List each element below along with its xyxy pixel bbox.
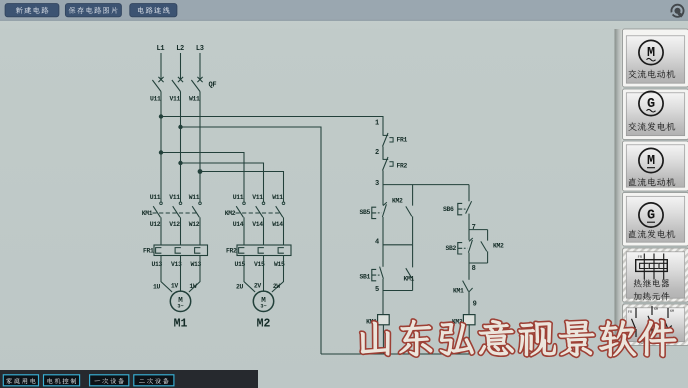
wire node1-2 bbox=[382, 147, 384, 160]
wire KM2 out pole 1 bbox=[243, 217, 245, 245]
wire phase U bus bbox=[160, 92, 162, 202]
wire right branch drop bbox=[468, 185, 470, 202]
svg-text:L3: L3 bbox=[196, 45, 204, 53]
wire FR1 out pole 2 bbox=[180, 256, 182, 291]
thermal relay FR1 heater box bbox=[154, 245, 208, 256]
wire bottom return bus bbox=[321, 353, 469, 355]
contactor aux KM1 interlock (NC) bbox=[463, 281, 469, 292]
svg-text:V11: V11 bbox=[170, 96, 181, 103]
svg-text:U11: U11 bbox=[233, 194, 244, 201]
palette tile: DC generator bbox=[623, 193, 688, 247]
svg-text:L1: L1 bbox=[156, 45, 164, 53]
svg-text:7: 7 bbox=[472, 224, 476, 232]
wire node5 to parallel bbox=[383, 290, 413, 292]
wire SB5 to node4 bbox=[382, 217, 384, 267]
svg-text:FR: FR bbox=[628, 311, 632, 315]
palette tile: thermal relay / heater bbox=[623, 248, 688, 302]
svg-text:3~: 3~ bbox=[177, 304, 183, 310]
svg-text:U11: U11 bbox=[150, 96, 161, 103]
wire KM1 out pole 1 bbox=[160, 217, 162, 245]
sidebar deck left edge bbox=[615, 29, 624, 346]
thermal relay FR2 heater box bbox=[237, 245, 291, 256]
junction U tap bbox=[159, 150, 163, 154]
contactor aux KM1 (parallel with SB1) bbox=[406, 245, 413, 291]
svg-text:3~: 3~ bbox=[260, 304, 266, 310]
thermal contact FR1 (NC) bbox=[383, 134, 389, 136]
wire KM2 out pole 3 bbox=[283, 217, 285, 245]
wire control return drop bbox=[181, 127, 322, 354]
svg-text:M: M bbox=[647, 154, 655, 169]
thermal relay FR1 element 1 bbox=[156, 248, 162, 254]
breaker QF pole 3 bbox=[197, 77, 202, 82]
svg-text:KM1: KM1 bbox=[453, 287, 464, 294]
wire node4 to parallel bbox=[383, 244, 413, 246]
coil KM1 bbox=[378, 315, 390, 325]
pushbutton SB6 (NO) bbox=[466, 201, 472, 213]
wire FR2 out pole 2 bbox=[263, 256, 265, 291]
wire SB1 to node5 bbox=[382, 279, 384, 315]
svg-text:1V: 1V bbox=[171, 282, 178, 289]
svg-text:3: 3 bbox=[375, 180, 379, 188]
motor M1 symbol bbox=[170, 291, 190, 311]
svg-text:U12: U12 bbox=[150, 221, 161, 228]
thermal relay FR2 element 1 bbox=[239, 248, 245, 254]
wire node7 to selfhold bbox=[469, 229, 488, 231]
svg-text:FR2: FR2 bbox=[226, 247, 237, 254]
wire U tap to motor-2 branch bbox=[161, 153, 244, 202]
wire coil KM1 to return bbox=[382, 325, 384, 354]
svg-text:9: 9 bbox=[473, 300, 477, 308]
svg-text:FR1: FR1 bbox=[143, 247, 154, 254]
svg-text:V11: V11 bbox=[169, 194, 180, 201]
coil KM2 bbox=[463, 315, 475, 325]
wire node2-3 bbox=[382, 171, 384, 206]
svg-text:W11: W11 bbox=[189, 96, 200, 103]
svg-text:SB6: SB6 bbox=[443, 206, 454, 213]
contactor KM1 main contact pole 1 bbox=[160, 202, 163, 205]
wire KM1 out pole 2 bbox=[180, 217, 182, 245]
svg-text:KM: KM bbox=[654, 308, 658, 312]
svg-text:SB1: SB1 bbox=[360, 273, 371, 280]
wire FR1 out pole 1 bbox=[161, 256, 172, 293]
svg-text:SB2: SB2 bbox=[446, 245, 457, 252]
palette tile: AC generator bbox=[623, 89, 688, 140]
svg-text:8: 8 bbox=[472, 265, 476, 273]
svg-text:1U: 1U bbox=[153, 283, 160, 290]
contactor aux KM2 self-hold bbox=[481, 230, 488, 263]
pushbutton SB2 (NC) bbox=[468, 240, 472, 253]
svg-text:W11: W11 bbox=[272, 194, 283, 201]
thermal relay FR2 element 2 bbox=[258, 248, 264, 254]
junction V tap bbox=[178, 161, 182, 165]
svg-text:KM1: KM1 bbox=[404, 275, 415, 282]
wire node8 loop bottom bbox=[469, 262, 488, 264]
palette tile: DC motor bbox=[623, 141, 688, 191]
wire control supply (node 1 feed) bbox=[161, 117, 383, 136]
wire phase V bus bbox=[180, 92, 182, 202]
wire node3 cross to right branch bbox=[383, 184, 469, 186]
svg-text:U14: U14 bbox=[233, 221, 244, 228]
svg-text:KM2: KM2 bbox=[392, 197, 403, 204]
svg-text:KM2: KM2 bbox=[225, 210, 236, 217]
junction U/control bbox=[159, 114, 163, 118]
svg-text:2: 2 bbox=[375, 149, 379, 157]
wire SB6 to node7 bbox=[468, 214, 470, 241]
svg-text:4: 4 bbox=[375, 238, 379, 246]
wire KM1 interlock to node9 bbox=[468, 292, 470, 315]
wire W tap to motor-2 branch bbox=[200, 172, 284, 202]
svg-text:2U: 2U bbox=[236, 283, 243, 290]
svg-text:U11: U11 bbox=[150, 194, 161, 201]
wire coil KM2 to return bbox=[468, 325, 470, 354]
breaker QF pole 1 bbox=[158, 77, 163, 82]
thermal relay FR1 element 2 bbox=[175, 248, 181, 254]
svg-text:2V: 2V bbox=[254, 282, 261, 289]
watermark 山东弘意视景软件 bbox=[361, 320, 676, 356]
wire L1 drop to QF bbox=[160, 53, 162, 79]
wire FR2 out pole 3 bbox=[272, 256, 284, 293]
contactor aux KM2 (parallel with SB5) bbox=[406, 185, 413, 245]
svg-text:W11: W11 bbox=[189, 194, 200, 201]
contactor KM1 linkage bbox=[153, 212, 199, 214]
svg-text:M1: M1 bbox=[174, 318, 188, 331]
palette tile: AC motor bbox=[623, 29, 688, 87]
contactor KM1 main contact pole 2 bbox=[179, 202, 182, 205]
svg-text:M2: M2 bbox=[257, 318, 271, 331]
contactor KM2 linkage bbox=[236, 212, 282, 214]
svg-text:L2: L2 bbox=[176, 45, 184, 53]
thermal relay FR2 element 3 bbox=[278, 248, 284, 254]
svg-text:V14: V14 bbox=[252, 221, 263, 228]
palette tile: relay contacts bbox=[623, 304, 688, 346]
wire SB2 to KM1 interlock bbox=[468, 253, 470, 280]
thermal contact FR2 (NC) bbox=[383, 158, 389, 160]
svg-text:5: 5 bbox=[375, 286, 379, 294]
svg-text:QF: QF bbox=[209, 82, 217, 90]
wire KM1 out pole 3 bbox=[199, 217, 201, 245]
junction V/return bbox=[178, 125, 182, 129]
wire V tap to motor-2 branch bbox=[181, 163, 264, 202]
svg-text:FR2: FR2 bbox=[397, 163, 408, 170]
contactor KM2 main contact pole 1 bbox=[243, 202, 246, 205]
svg-text:2W: 2W bbox=[273, 283, 280, 290]
wire L2 drop to QF bbox=[180, 53, 182, 79]
svg-text:V11: V11 bbox=[252, 194, 263, 201]
wire phase W bus bbox=[199, 92, 201, 202]
svg-text:FR1: FR1 bbox=[397, 137, 408, 144]
svg-text:SB5: SB5 bbox=[360, 209, 371, 216]
contactor KM2 main contact pole 3 bbox=[282, 202, 285, 205]
pushbutton SB5 (stop, NC) bbox=[382, 204, 386, 217]
svg-text:KM2: KM2 bbox=[493, 243, 504, 250]
svg-text:V12: V12 bbox=[169, 221, 180, 228]
contactor KM2 main contact pole 2 bbox=[262, 202, 265, 205]
breaker QF pole 2 bbox=[178, 77, 183, 82]
svg-text:W14: W14 bbox=[272, 221, 283, 228]
pushbutton SB1 (start, NO) bbox=[380, 267, 384, 279]
svg-text:KM: KM bbox=[670, 310, 674, 314]
wire KM2 out pole 2 bbox=[263, 217, 265, 245]
wire FR1 out pole 3 bbox=[189, 256, 200, 293]
wire L3 drop to QF bbox=[199, 53, 201, 79]
svg-text:G: G bbox=[647, 209, 655, 224]
svg-text:W12: W12 bbox=[189, 221, 200, 228]
svg-text:KM1: KM1 bbox=[142, 210, 153, 217]
junction W tap bbox=[198, 169, 203, 174]
motor M2 symbol bbox=[253, 291, 273, 311]
wire FR2 out pole 1 bbox=[244, 256, 255, 293]
svg-text:1W: 1W bbox=[189, 283, 196, 290]
contactor KM1 main contact pole 3 bbox=[199, 202, 202, 205]
svg-text:1: 1 bbox=[375, 120, 379, 128]
thermal relay FR1 element 3 bbox=[195, 248, 201, 254]
